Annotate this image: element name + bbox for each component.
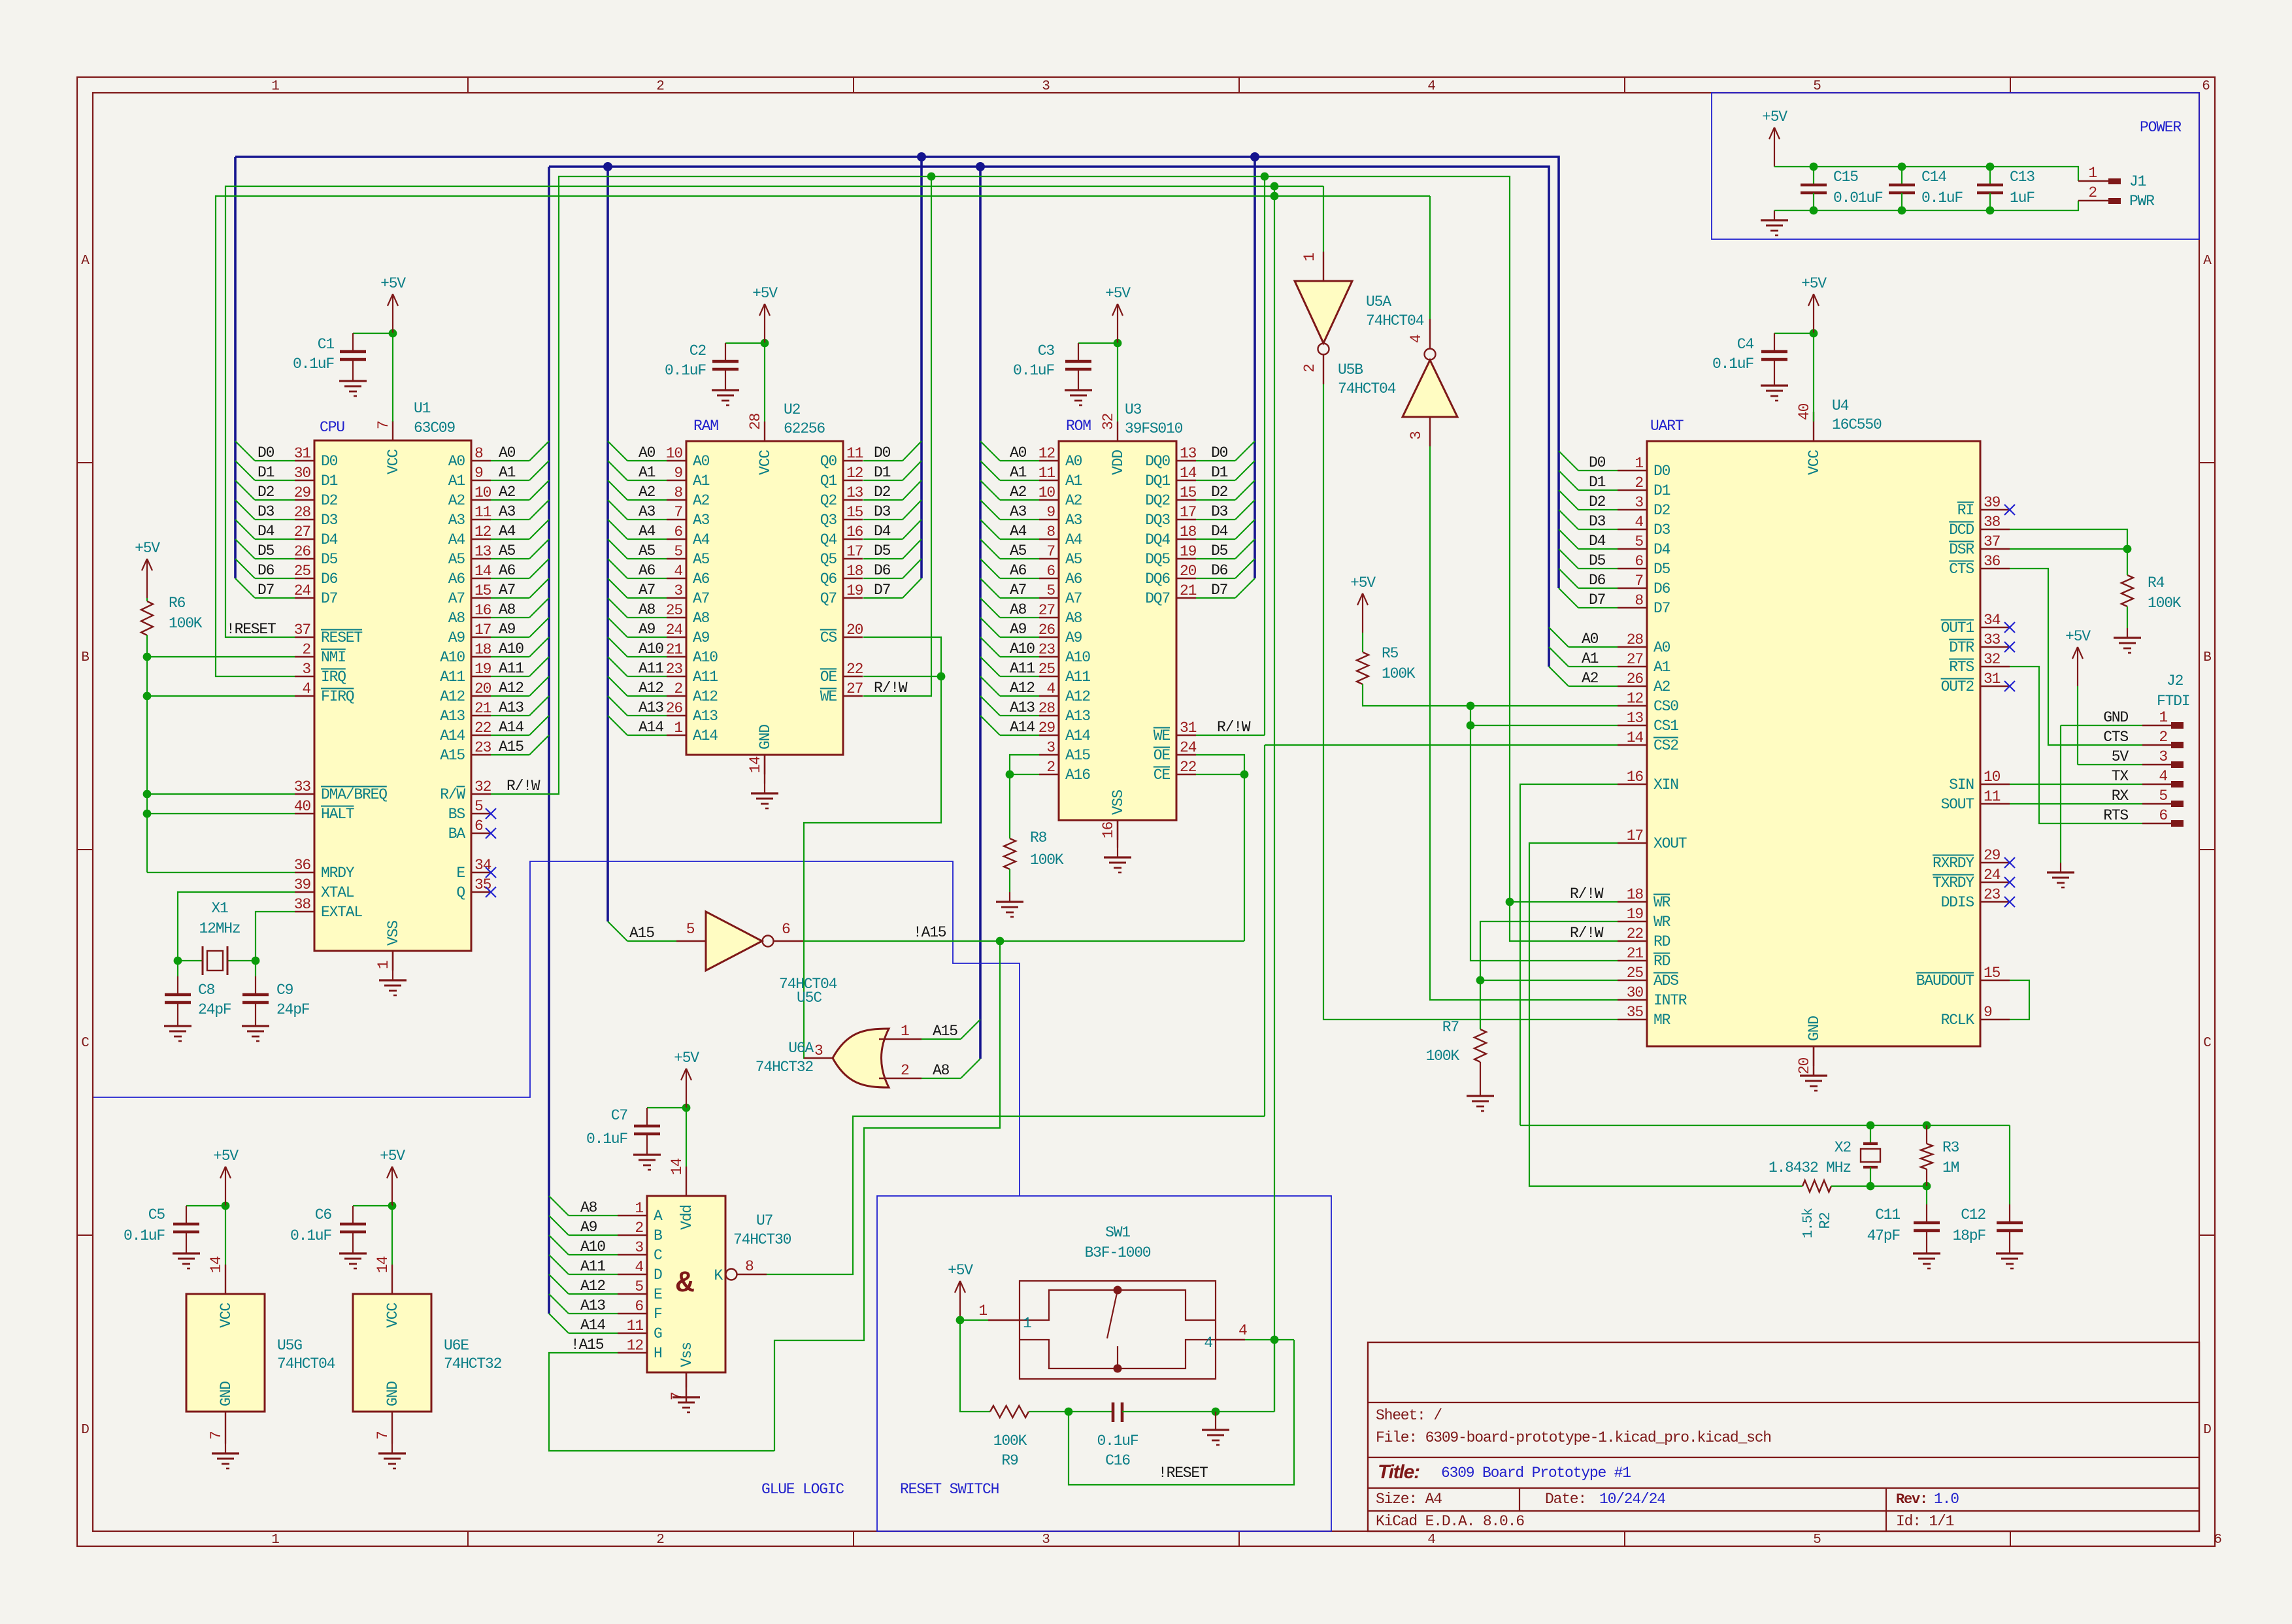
svg-text:12: 12 [1038, 445, 1055, 462]
svg-text:18: 18 [846, 563, 863, 580]
svg-text:38: 38 [1984, 514, 2001, 531]
svg-text:5: 5 [474, 798, 483, 815]
svg-text:100K: 100K [169, 615, 203, 632]
svg-text:A2: A2 [1065, 492, 1082, 509]
svg-text:23: 23 [474, 739, 491, 756]
svg-text:R/!W: R/!W [874, 680, 908, 697]
svg-text:A14: A14 [580, 1317, 605, 1334]
svg-text:47pF: 47pF [1867, 1227, 1901, 1244]
svg-text:R5: R5 [1382, 645, 1399, 662]
svg-text:A1: A1 [1582, 650, 1599, 667]
svg-text:A9: A9 [499, 621, 516, 638]
svg-text:D1: D1 [1589, 474, 1606, 491]
svg-text:A7: A7 [499, 582, 515, 599]
svg-text:A0: A0 [499, 444, 516, 461]
svg-text:VCC: VCC [385, 450, 402, 474]
svg-text:21: 21 [1180, 582, 1197, 599]
svg-text:+5V: +5V [2065, 628, 2091, 645]
svg-text:+5V: +5V [380, 275, 406, 292]
svg-text:WE: WE [820, 688, 837, 705]
svg-text:CS2: CS2 [1653, 737, 1678, 754]
svg-text:5: 5 [1813, 79, 1821, 94]
svg-text:R/!W: R/!W [507, 778, 540, 795]
svg-text:A5: A5 [448, 551, 465, 568]
svg-text:2: 2 [656, 1533, 664, 1548]
svg-text:A10: A10 [639, 640, 663, 657]
svg-text:0.1uF: 0.1uF [293, 356, 334, 373]
svg-text:R9: R9 [1001, 1452, 1018, 1469]
svg-text:36: 36 [294, 857, 311, 874]
svg-text:Q: Q [456, 884, 465, 901]
svg-text:U6A: U6A [788, 1040, 814, 1057]
svg-text:A11: A11 [1065, 669, 1090, 686]
svg-text:D0: D0 [257, 444, 274, 461]
svg-text:D6: D6 [321, 571, 338, 588]
svg-text:8: 8 [1046, 523, 1055, 540]
svg-text:+5V: +5V [380, 1148, 405, 1165]
svg-text:A0: A0 [1653, 639, 1670, 656]
svg-text:CE: CE [1154, 767, 1171, 784]
svg-text:D6: D6 [1653, 580, 1670, 597]
svg-text:20: 20 [1180, 563, 1197, 580]
svg-text:1.0: 1.0 [1934, 1491, 1959, 1508]
svg-text:27: 27 [846, 680, 863, 697]
svg-text:DQ1: DQ1 [1145, 472, 1170, 489]
svg-text:RD: RD [1653, 953, 1670, 970]
svg-text:3: 3 [814, 1042, 823, 1059]
svg-text:FIRQ: FIRQ [321, 688, 354, 705]
svg-text:1: 1 [2088, 165, 2097, 182]
svg-text:R3: R3 [1942, 1139, 1959, 1156]
svg-text:J2: J2 [2167, 672, 2184, 689]
svg-text:14: 14 [208, 1256, 225, 1273]
svg-text:VCC: VCC [384, 1303, 401, 1328]
svg-text:21: 21 [1627, 945, 1644, 962]
svg-text:D0: D0 [1211, 444, 1228, 461]
svg-text:VCC: VCC [1806, 450, 1823, 475]
svg-text:A0: A0 [639, 444, 656, 461]
svg-text:DQ0: DQ0 [1145, 453, 1170, 470]
svg-text:D2: D2 [874, 484, 891, 501]
svg-text:1: 1 [901, 1023, 909, 1040]
svg-text:A14: A14 [1065, 727, 1090, 744]
svg-text:R/!W: R/!W [1217, 719, 1251, 736]
svg-text:22: 22 [474, 720, 491, 737]
svg-text:D0: D0 [1653, 463, 1670, 480]
svg-text:D5: D5 [1211, 542, 1228, 559]
svg-text:A4: A4 [499, 523, 516, 540]
svg-text:27: 27 [1627, 651, 1643, 668]
svg-text:1: 1 [1301, 253, 1318, 261]
svg-text:D7: D7 [1211, 582, 1227, 599]
svg-text:A8: A8 [448, 610, 465, 627]
svg-text:U5A: U5A [1366, 293, 1391, 310]
svg-text:62256: 62256 [784, 420, 825, 437]
svg-text:R4: R4 [2148, 574, 2165, 591]
svg-text:13: 13 [1180, 445, 1197, 462]
svg-text:4: 4 [2159, 768, 2167, 785]
svg-text:RCLK: RCLK [1941, 1012, 1975, 1029]
svg-text:6: 6 [782, 921, 790, 938]
svg-text:VCC: VCC [757, 450, 774, 475]
svg-text:22: 22 [1180, 759, 1197, 776]
svg-text:3: 3 [1635, 494, 1643, 511]
svg-text:100K: 100K [2148, 595, 2182, 612]
svg-text:A5: A5 [693, 551, 710, 568]
svg-text:A0: A0 [1010, 444, 1027, 461]
svg-text:RD: RD [1653, 933, 1670, 950]
svg-text:D: D [654, 1267, 662, 1284]
svg-text:C2: C2 [689, 342, 706, 359]
svg-text:2: 2 [901, 1062, 909, 1079]
svg-text:RTS: RTS [1949, 659, 1974, 676]
svg-text:19: 19 [846, 582, 863, 599]
svg-text:D3: D3 [321, 512, 338, 529]
svg-text:DQ7: DQ7 [1145, 590, 1170, 607]
svg-text:7: 7 [375, 421, 392, 429]
svg-text:32: 32 [1100, 413, 1117, 430]
svg-text:23: 23 [666, 661, 683, 678]
svg-text:18: 18 [474, 641, 491, 658]
svg-text:A1: A1 [1653, 659, 1670, 676]
svg-text:23: 23 [1984, 886, 2001, 903]
svg-text:16: 16 [1100, 821, 1117, 838]
svg-text:18pF: 18pF [1953, 1227, 1986, 1244]
svg-text:WR: WR [1653, 894, 1671, 911]
svg-text:6: 6 [2159, 807, 2167, 824]
svg-text:7: 7 [374, 1431, 391, 1440]
svg-text:Size: A4: Size: A4 [1376, 1491, 1442, 1508]
svg-text:Vss: Vss [678, 1342, 695, 1367]
svg-text:A12: A12 [1065, 688, 1090, 705]
svg-text:6: 6 [474, 818, 483, 835]
svg-text:14: 14 [1627, 729, 1644, 746]
svg-text:24: 24 [1984, 867, 2001, 884]
svg-text:A8: A8 [499, 601, 516, 618]
svg-text:C8: C8 [198, 982, 215, 999]
svg-text:Q4: Q4 [820, 531, 837, 548]
svg-text:EXTAL: EXTAL [321, 904, 362, 921]
svg-text:MR: MR [1653, 1012, 1671, 1029]
svg-text:11: 11 [846, 445, 863, 462]
svg-text:31: 31 [1984, 671, 2001, 688]
svg-text:2: 2 [635, 1219, 643, 1236]
svg-text:C: C [654, 1247, 662, 1264]
svg-text:FTDI: FTDI [2157, 693, 2189, 710]
svg-text:DQ5: DQ5 [1145, 551, 1170, 568]
svg-text:D1: D1 [257, 464, 274, 481]
svg-text:RI: RI [1957, 502, 1974, 519]
svg-text:OE: OE [1154, 747, 1171, 764]
svg-text:A8: A8 [693, 610, 710, 627]
svg-text:27: 27 [294, 523, 310, 540]
svg-text:4: 4 [1427, 79, 1435, 94]
svg-text:D7: D7 [1589, 591, 1605, 608]
svg-text:12: 12 [474, 523, 491, 540]
svg-text:100K: 100K [1382, 665, 1416, 682]
svg-text:RX: RX [2112, 787, 2129, 804]
svg-text:D3: D3 [257, 503, 274, 520]
svg-text:13: 13 [846, 484, 863, 501]
svg-text:Id: 1/1: Id: 1/1 [1896, 1513, 1954, 1530]
svg-text:A7: A7 [639, 582, 655, 599]
svg-text:D3: D3 [1211, 503, 1228, 520]
svg-text:26: 26 [1627, 671, 1644, 688]
svg-text:DMA/BREQ: DMA/BREQ [321, 786, 387, 803]
svg-text:+5V: +5V [948, 1262, 973, 1279]
svg-text:U7: U7 [756, 1212, 772, 1229]
svg-text:RAM: RAM [693, 418, 718, 435]
svg-text:15: 15 [1180, 484, 1197, 501]
svg-text:C3: C3 [1038, 342, 1055, 359]
svg-text:3: 3 [635, 1239, 643, 1256]
svg-text:R2: R2 [1817, 1212, 1834, 1229]
svg-text:A2: A2 [1653, 678, 1670, 695]
svg-text:OUT2: OUT2 [1941, 678, 1974, 695]
svg-text:39: 39 [1984, 494, 2001, 511]
svg-text:14: 14 [747, 756, 764, 773]
svg-text:1: 1 [2159, 709, 2167, 726]
svg-text:0.1uF: 0.1uF [586, 1131, 627, 1148]
svg-text:J1: J1 [2129, 173, 2146, 190]
svg-text:19: 19 [1180, 543, 1197, 560]
svg-text:23: 23 [1038, 641, 1055, 658]
svg-text:3: 3 [1042, 1533, 1050, 1548]
svg-text:U5G: U5G [277, 1337, 302, 1354]
svg-text:14: 14 [374, 1256, 391, 1273]
svg-text:A14: A14 [639, 719, 663, 736]
svg-text:18: 18 [1180, 523, 1197, 540]
svg-text:6: 6 [2202, 79, 2210, 94]
svg-text:CS1: CS1 [1653, 718, 1678, 735]
svg-text:Q6: Q6 [820, 571, 837, 588]
svg-text:0.1uF: 0.1uF [124, 1227, 165, 1244]
svg-text:X2: X2 [1835, 1139, 1852, 1156]
svg-text:3: 3 [2159, 748, 2167, 765]
svg-text:A13: A13 [1010, 699, 1035, 716]
svg-text:34: 34 [1984, 612, 2001, 629]
svg-text:C11: C11 [1875, 1206, 1900, 1223]
svg-text:PWR: PWR [2129, 193, 2155, 210]
svg-text:10/24/24: 10/24/24 [1599, 1491, 1665, 1508]
svg-text:NMI: NMI [321, 649, 346, 666]
svg-text:32: 32 [474, 778, 491, 795]
svg-text:D0: D0 [874, 444, 891, 461]
svg-text:DTR: DTR [1949, 639, 1974, 656]
svg-text:D1: D1 [1211, 464, 1228, 481]
svg-text:32: 32 [1984, 651, 2001, 668]
svg-text:DQ3: DQ3 [1145, 512, 1170, 529]
svg-text:22: 22 [846, 661, 863, 678]
svg-text:OE: OE [820, 669, 837, 686]
svg-text:K: K [714, 1267, 723, 1284]
svg-text:7: 7 [1635, 572, 1643, 589]
svg-text:7: 7 [1046, 543, 1055, 560]
svg-text:A5: A5 [639, 542, 656, 559]
svg-text:A9: A9 [448, 629, 465, 646]
svg-text:29: 29 [1038, 720, 1055, 737]
svg-text:100K: 100K [1030, 852, 1064, 869]
svg-text:D1: D1 [321, 472, 338, 489]
svg-text:RESET SWITCH: RESET SWITCH [900, 1481, 999, 1498]
svg-text:A1: A1 [499, 464, 516, 481]
svg-text:A10: A10 [1010, 640, 1035, 657]
svg-text:+5V: +5V [213, 1148, 239, 1165]
svg-text:X1: X1 [211, 900, 228, 917]
svg-text:14: 14 [474, 563, 491, 580]
svg-text:D: D [2203, 1423, 2211, 1438]
svg-text:A15: A15 [499, 738, 523, 755]
svg-text:36: 36 [1984, 553, 2001, 570]
svg-text:12: 12 [627, 1337, 644, 1354]
svg-text:D7: D7 [1653, 600, 1670, 617]
svg-text:A11: A11 [440, 669, 465, 686]
svg-text:2: 2 [1635, 474, 1643, 491]
svg-text:21: 21 [474, 700, 491, 717]
svg-text:4: 4 [1408, 335, 1425, 343]
svg-text:19: 19 [474, 661, 491, 678]
svg-text:A8: A8 [639, 601, 656, 618]
svg-text:28: 28 [294, 504, 311, 521]
svg-text:C12: C12 [1961, 1206, 1985, 1223]
svg-text:D3: D3 [874, 503, 891, 520]
svg-text:KiCad E.D.A. 8.0.6: KiCad E.D.A. 8.0.6 [1376, 1513, 1524, 1530]
svg-text:A15: A15 [629, 925, 654, 942]
svg-text:28: 28 [747, 413, 764, 430]
svg-text:D6: D6 [874, 562, 891, 579]
svg-text:D6: D6 [257, 562, 274, 579]
svg-text:DQ4: DQ4 [1145, 531, 1170, 548]
svg-text:17: 17 [474, 621, 491, 638]
svg-text:D7: D7 [257, 582, 274, 599]
svg-text:0.1uF: 0.1uF [1013, 362, 1054, 379]
svg-text:A8: A8 [1010, 601, 1027, 618]
svg-text:8: 8 [674, 484, 682, 501]
svg-text:U6E: U6E [444, 1337, 469, 1354]
svg-text:CS0: CS0 [1653, 698, 1678, 715]
svg-text:11: 11 [627, 1317, 644, 1334]
svg-text:A4: A4 [1065, 531, 1082, 548]
svg-text:13: 13 [1627, 710, 1644, 727]
svg-text:15: 15 [474, 582, 491, 599]
svg-text:D6: D6 [1211, 562, 1228, 579]
svg-text:9: 9 [1984, 1004, 1992, 1021]
svg-text:A6: A6 [639, 562, 656, 579]
svg-text:3: 3 [302, 661, 310, 678]
svg-text:A1: A1 [693, 472, 710, 489]
svg-text:A3: A3 [1010, 503, 1027, 520]
svg-text:A14: A14 [499, 719, 523, 736]
svg-text:DQ6: DQ6 [1145, 571, 1170, 588]
svg-text:D2: D2 [1653, 502, 1670, 519]
svg-text:16: 16 [474, 602, 491, 619]
svg-text:6: 6 [2214, 1533, 2221, 1548]
svg-text:D4: D4 [257, 523, 274, 540]
svg-text:A3: A3 [1065, 512, 1082, 529]
svg-text:H: H [654, 1345, 662, 1362]
svg-text:A: A [654, 1208, 663, 1225]
svg-text:16: 16 [1627, 769, 1644, 786]
svg-text:D5: D5 [257, 542, 274, 559]
svg-text:4: 4 [1204, 1334, 1212, 1351]
svg-text:Date:: Date: [1545, 1491, 1586, 1508]
svg-text:A11: A11 [639, 660, 663, 677]
svg-text:D7: D7 [321, 590, 337, 607]
svg-text:A15: A15 [440, 747, 465, 764]
svg-text:A1: A1 [448, 472, 465, 489]
svg-text:4: 4 [635, 1259, 643, 1276]
svg-text:12: 12 [1627, 690, 1644, 707]
svg-text:9: 9 [674, 465, 682, 482]
svg-text:1M: 1M [1942, 1159, 1959, 1176]
svg-text:37: 37 [1984, 533, 2000, 550]
svg-text:ADS: ADS [1653, 972, 1678, 989]
svg-text:A13: A13 [440, 708, 465, 725]
svg-text:20: 20 [474, 680, 491, 697]
svg-text:A10: A10 [440, 649, 465, 666]
svg-text:D5: D5 [1589, 552, 1606, 569]
svg-text:25: 25 [1627, 965, 1644, 982]
svg-text:G: G [654, 1325, 662, 1342]
svg-text:74HCT32: 74HCT32 [444, 1355, 502, 1372]
svg-text:A14: A14 [693, 727, 718, 744]
svg-text:0.1uF: 0.1uF [1921, 190, 1963, 207]
svg-text:12MHz: 12MHz [199, 920, 240, 937]
svg-text:A8: A8 [580, 1199, 597, 1216]
svg-text:31: 31 [294, 445, 311, 462]
svg-text:WE: WE [1154, 727, 1171, 744]
svg-text:VSS: VSS [385, 921, 402, 946]
svg-text:2: 2 [656, 79, 664, 94]
svg-text:A9: A9 [1065, 629, 1082, 646]
svg-text:A10: A10 [693, 649, 718, 666]
svg-text:3: 3 [1046, 739, 1055, 756]
svg-text:A9: A9 [580, 1219, 597, 1236]
svg-text:4: 4 [1046, 680, 1055, 697]
svg-text:BAUDOUT: BAUDOUT [1916, 972, 1974, 989]
svg-text:A16: A16 [1065, 767, 1090, 784]
svg-text:A9: A9 [639, 621, 656, 638]
svg-text:24: 24 [666, 621, 683, 638]
svg-text:30: 30 [1627, 984, 1644, 1001]
svg-text:E: E [654, 1286, 662, 1303]
svg-text:2: 2 [302, 641, 310, 658]
svg-text:A13: A13 [499, 699, 523, 716]
svg-text:!RESET: !RESET [1158, 1465, 1208, 1482]
svg-text:1: 1 [1635, 455, 1643, 472]
svg-text:Vdd: Vdd [678, 1205, 695, 1230]
svg-text:A13: A13 [1065, 708, 1090, 725]
svg-text:A2: A2 [1582, 670, 1599, 687]
svg-text:28: 28 [1627, 631, 1644, 648]
svg-text:&: & [676, 1267, 694, 1301]
svg-text:D: D [81, 1423, 89, 1438]
svg-text:29: 29 [294, 484, 311, 501]
svg-text:27: 27 [1038, 602, 1055, 619]
svg-text:A2: A2 [1010, 484, 1027, 501]
svg-text:U1: U1 [414, 400, 431, 417]
svg-text:A7: A7 [693, 590, 709, 607]
svg-text:A3: A3 [499, 503, 516, 520]
svg-text:A5: A5 [1010, 542, 1027, 559]
svg-text:40: 40 [1796, 403, 1813, 420]
svg-text:GND: GND [218, 1382, 235, 1406]
svg-text:C16: C16 [1105, 1452, 1130, 1469]
svg-text:40: 40 [294, 798, 311, 815]
svg-text:Title:: Title: [1378, 1461, 1420, 1483]
svg-text:A7: A7 [1010, 582, 1026, 599]
svg-text:C: C [81, 1036, 89, 1051]
